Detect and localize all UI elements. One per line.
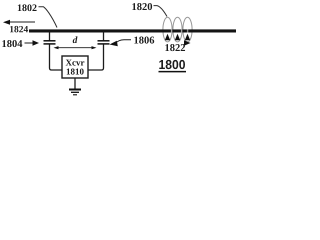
- svg-text:d: d: [73, 36, 78, 46]
- svg-text:1800: 1800: [158, 57, 185, 72]
- svg-text:1810: 1810: [66, 66, 85, 76]
- svg-text:1804: 1804: [2, 39, 24, 50]
- svg-text:1806: 1806: [134, 36, 155, 47]
- svg-text:1820: 1820: [132, 2, 153, 13]
- svg-text:1822: 1822: [164, 43, 185, 54]
- svg-text:1802: 1802: [17, 3, 37, 14]
- svg-text:1824: 1824: [9, 25, 28, 35]
